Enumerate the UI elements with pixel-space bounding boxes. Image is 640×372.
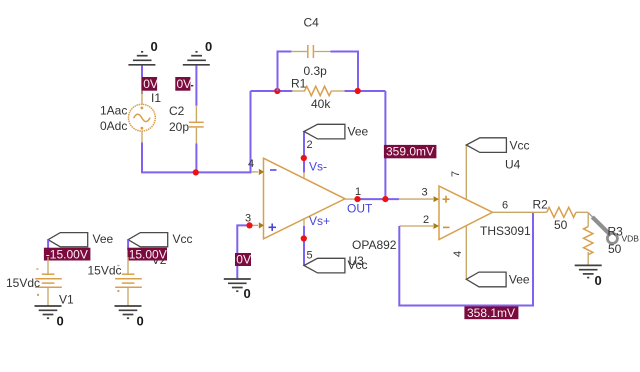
svg-text:Vcc: Vcc (173, 232, 193, 246)
voltage label 0V on I1 net (142, 77, 158, 91)
svg-text:Vee: Vee (509, 273, 530, 287)
svg-text:R2: R2 (533, 198, 549, 212)
svg-text:7: 7 (450, 171, 462, 177)
svg-text:R3: R3 (608, 225, 624, 239)
U4 pin 2 lead with arrow (400, 214, 440, 229)
svg-text:0: 0 (595, 273, 602, 288)
bottom input rail wire (142, 91, 251, 172)
svg-text:R1: R1 (291, 77, 307, 91)
svg-text:15Vdc: 15Vdc (6, 276, 40, 290)
svg-text:0.3p: 0.3p (304, 64, 328, 78)
junction R1 right (355, 88, 361, 94)
svg-text:Vee: Vee (348, 125, 369, 139)
svg-text:20p: 20p (169, 120, 189, 134)
op-amp U4 THS3091 (439, 158, 531, 240)
R3 ref and value labels (608, 225, 624, 257)
wire Vcc port to V2 (127, 240, 129, 250)
U4 pin 3 lead with arrow (399, 187, 439, 203)
ground 0 below 0V label (224, 279, 251, 301)
U3 pin 3 lead with arrow (245, 213, 264, 229)
junction at U3 pin 3 (246, 222, 252, 228)
svg-text:U4: U4 (505, 158, 521, 172)
svg-text:359.0mV: 359.0mV (386, 145, 434, 159)
svg-text:-15.00V: -15.00V (46, 247, 88, 261)
svg-text:0: 0 (57, 314, 64, 329)
svg-text:0V: 0V (236, 253, 251, 267)
voltage label 15.00V (128, 247, 168, 261)
wire Vee port to V1 (47, 240, 49, 250)
svg-text:1Aac: 1Aac (100, 104, 127, 118)
junction R1 left (274, 88, 280, 94)
svg-text:Vee: Vee (93, 232, 114, 246)
voltage label -15.00V (44, 247, 91, 261)
capacitor C2 (169, 104, 204, 144)
U4 feedback wire (399, 212, 533, 305)
junction at C2 tap (193, 169, 199, 175)
resistor R3 (584, 212, 593, 265)
svg-text:0V: 0V (143, 77, 158, 91)
U4 pin 4 (Vee) (452, 226, 466, 279)
svg-text:5: 5 (307, 250, 313, 262)
feedback top rail wire left (251, 90, 293, 92)
svg-text:OUT: OUT (347, 202, 373, 216)
svg-text:0Adc: 0Adc (100, 119, 127, 133)
svg-text:358.1mV: 358.1mV (467, 306, 515, 320)
svg-text:C4: C4 (304, 16, 320, 30)
probe VDB marker (589, 213, 640, 243)
svg-text:OPA892: OPA892 (352, 238, 397, 252)
junction at feedback tap node (382, 196, 388, 202)
svg-text:0: 0 (205, 39, 212, 54)
voltage label 0V on C2 net (175, 77, 193, 91)
C4 loop wire left (278, 52, 292, 92)
svg-text:Vcc: Vcc (510, 139, 530, 153)
junction at U3 output node (354, 196, 360, 202)
svg-text:40k: 40k (311, 97, 331, 111)
svg-text:15.00V: 15.00V (129, 247, 167, 261)
capacitor C4 (291, 16, 331, 79)
svg-text:Vs+: Vs+ (309, 214, 330, 228)
C4 loop wire right (331, 52, 359, 92)
power port Vcc (U4) (466, 138, 529, 153)
svg-text:VDB: VDB (622, 233, 640, 243)
ground 0 below R3 (575, 265, 602, 288)
junction at U3 pin 2 (301, 155, 307, 161)
svg-text:Vs-: Vs- (309, 160, 327, 174)
wire feedback down to output node (384, 91, 386, 199)
voltage label 0V at pin3 (235, 253, 251, 267)
wire ground to I1 (141, 66, 143, 95)
svg-text:Vcc: Vcc (348, 258, 368, 272)
svg-text:3: 3 (422, 187, 428, 199)
resistor R1 (291, 77, 345, 112)
svg-text:15Vdc: 15Vdc (87, 263, 121, 277)
source V2 15Vdc (87, 257, 141, 306)
resistor R2 (533, 198, 589, 233)
svg-text:I1: I1 (151, 91, 161, 105)
svg-text:6: 6 (502, 200, 508, 212)
svg-text:0: 0 (151, 39, 158, 54)
svg-text:4: 4 (248, 158, 254, 170)
wire C2 to bottom rail (195, 144, 197, 173)
svg-text:2: 2 (423, 214, 429, 226)
svg-text:50: 50 (608, 242, 622, 256)
current source I1 (100, 91, 161, 144)
power port Vee (V1) (48, 232, 113, 247)
wire ground to C2 (195, 66, 197, 107)
ground 0 above I1 (flipped) (128, 39, 157, 65)
power port Vee (U4) (466, 272, 530, 287)
voltage label 359.0mV (384, 145, 437, 159)
U3 pin 5 (Vcc) (301, 214, 330, 266)
svg-text:C2: C2 (169, 104, 185, 118)
power port Vee (U3) (304, 124, 369, 139)
wire 0V ground to U3 pin3 (237, 225, 251, 278)
svg-text:0V: 0V (177, 77, 192, 91)
wire I1 to bottom rail (141, 143, 143, 173)
U4 output pin 6 (493, 200, 534, 213)
op-amp U3 OPA892 (264, 158, 397, 272)
voltage label 358.1mV (464, 306, 518, 320)
ground 0 above C2 (flipped) (183, 39, 212, 65)
U3 pin 4 lead with arrow (248, 158, 264, 175)
power port Vcc (V2) (128, 232, 192, 247)
source V1 15Vdc (6, 257, 74, 307)
svg-text:0: 0 (137, 314, 144, 329)
U3 pin 2 (Vee) (301, 132, 327, 179)
feedback top rail wire right (345, 90, 386, 92)
svg-text:4: 4 (452, 251, 464, 257)
wire U3 out to U4 (358, 198, 400, 200)
svg-text:50: 50 (554, 218, 568, 232)
junction at U3 pin 5 (301, 235, 307, 241)
power port Vcc (U3 bottom) (304, 258, 345, 273)
ground 0 below V2 (115, 306, 144, 329)
svg-text:V1: V1 (59, 293, 74, 307)
ground 0 below V1 (35, 306, 64, 329)
svg-text:0: 0 (244, 286, 251, 301)
svg-text:2: 2 (307, 139, 313, 151)
svg-text:THS3091: THS3091 (480, 224, 531, 238)
U3 output pin 1 (345, 186, 373, 216)
U4 pin 7 (Vcc) (450, 145, 466, 200)
